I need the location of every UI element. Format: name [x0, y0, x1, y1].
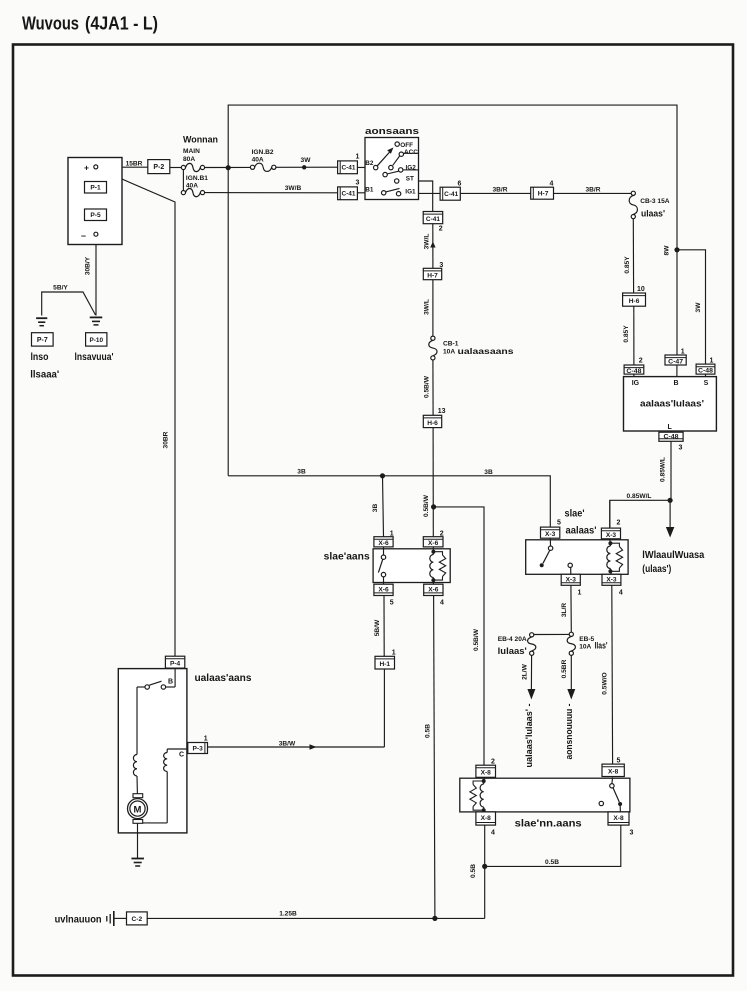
svg-text:IGN.B1: IGN.B1	[186, 175, 208, 182]
connector C-48 (S)	[696, 364, 715, 374]
connector P-7	[32, 333, 54, 346]
wire 3B row	[228, 476, 550, 527]
svg-text:aalaas': aalaas'	[566, 526, 597, 537]
svg-text:0.5BR: 0.5BR	[561, 659, 568, 678]
wire 3B to X-3 pin5	[549, 526, 551, 528]
cut starter relay switch	[599, 777, 622, 812]
svg-text:H-1: H-1	[379, 661, 390, 668]
connector H-6 pin10	[623, 293, 646, 306]
wire switch IG1 to C-41 pin6	[401, 192, 440, 194]
wire C-2 to right (1.25B)	[147, 917, 485, 919]
circuit breaker EB-5 10A	[567, 632, 575, 655]
svg-text:3W: 3W	[695, 302, 702, 313]
svg-text:X-6: X-6	[378, 586, 389, 593]
svg-text:0.85Y: 0.85Y	[624, 256, 631, 274]
svg-text:1.25B: 1.25B	[279, 910, 297, 917]
wire P-2 to MAIN fuse	[170, 167, 182, 169]
svg-text:0.85W/L: 0.85W/L	[660, 457, 667, 482]
svg-text:5B/Y: 5B/Y	[53, 284, 68, 291]
svg-text:0.5B/W: 0.5B/W	[424, 375, 431, 398]
wire chassis ground to engine ground (5B/Y)	[42, 292, 96, 316]
connector P-10	[86, 333, 107, 346]
connector C-47 (B)	[665, 355, 686, 365]
svg-text:1: 1	[356, 154, 360, 161]
svg-text:P-5: P-5	[90, 212, 101, 219]
svg-text:2: 2	[440, 530, 444, 537]
connector X-3 pin1	[561, 574, 580, 585]
svg-text:CB-1: CB-1	[443, 340, 459, 347]
svg-text:(ulaas'): (ulaas')	[642, 564, 671, 575]
svg-text:+: +	[84, 163, 89, 173]
wire C-48 pin3 to junction (0.85W/L)	[670, 441, 672, 500]
svg-text:2L/W: 2L/W	[522, 663, 529, 680]
connector X-6 pin2	[423, 537, 443, 548]
svg-text:ualaas'lulaas' -: ualaas'lulaas' -	[524, 704, 535, 768]
wire X-3 pin2 up	[609, 500, 611, 528]
svg-text:IGN.B2: IGN.B2	[252, 149, 274, 156]
svg-text:3B/R: 3B/R	[492, 186, 507, 193]
battery - terminal	[81, 231, 98, 241]
svg-text:2: 2	[617, 520, 621, 527]
wire C-41 pin2 to H-7 pin3 (3W/L)	[432, 224, 434, 269]
svg-text:3: 3	[630, 830, 634, 837]
svg-text:P-2: P-2	[153, 164, 164, 171]
svg-text:3: 3	[679, 445, 683, 452]
svg-text:C-47: C-47	[668, 359, 684, 365]
svg-text:6: 6	[458, 180, 462, 187]
wire C-47 pin1 into alternator B	[676, 365, 678, 377]
ground below starter motor	[131, 859, 144, 867]
heater relay switch	[540, 538, 573, 574]
svg-text:Wuvous: Wuvous	[22, 14, 79, 34]
svg-text:lnsavuua': lnsavuua'	[75, 352, 114, 363]
connector X-3 pin2	[601, 528, 620, 539]
wire X-6 pin5 to H-1 (5B/W)	[383, 596, 385, 657]
svg-text:1: 1	[390, 530, 394, 537]
svg-text:3B: 3B	[484, 469, 493, 476]
svg-text:X-3: X-3	[566, 576, 577, 583]
svg-text:slae': slae'	[565, 509, 585, 520]
svg-text:ulaas': ulaas'	[641, 209, 665, 219]
wire H-7 pin3 to CB-1 (3W/L)	[432, 280, 434, 336]
label IGN.B2 40A	[252, 149, 274, 163]
battery box	[68, 158, 122, 245]
svg-text:8W: 8W	[664, 245, 671, 256]
wire IGN.B1 to C-41 pin3 (3W/B)	[205, 192, 338, 194]
wire CB-1 to H-6 pin13 (0.5B/W)	[432, 358, 434, 415]
wire bus drop below junction	[227, 168, 229, 476]
svg-text:0.5B: 0.5B	[470, 864, 477, 878]
svg-text:3W/L: 3W/L	[423, 234, 430, 250]
svg-text:3: 3	[439, 262, 443, 269]
wire alternator L to C-48 pin3	[670, 431, 672, 432]
svg-text:4: 4	[440, 600, 444, 607]
connector X-6 pin4	[424, 584, 443, 595]
svg-text:aalaas'lulaas': aalaas'lulaas'	[640, 399, 704, 409]
starter relay coil and resistor	[430, 547, 446, 584]
svg-text:IG: IG	[632, 380, 640, 387]
alternator box ออลเตอร์เนเตอร์	[624, 377, 717, 431]
svg-text:X-8: X-8	[481, 815, 492, 822]
circuit breaker CB-1 10A	[429, 336, 437, 360]
svg-text:40A: 40A	[252, 157, 264, 164]
svg-text:B: B	[168, 678, 173, 685]
wire to charge warning lamp arrow	[669, 500, 671, 528]
junction dot 8W branch	[674, 247, 679, 252]
svg-text:MAIN: MAIN	[183, 148, 200, 155]
wire C-41 pin3 to switch B1	[357, 192, 381, 194]
svg-text:0.5W/O: 0.5W/O	[602, 672, 609, 694]
arrow to blower motor	[527, 689, 535, 700]
circuit breaker EB-4 20A	[528, 633, 536, 656]
svg-text:B: B	[674, 380, 679, 387]
circuit breaker CB-3 15A	[629, 191, 637, 219]
starter motor B terminal and switch	[137, 669, 175, 690]
wire X-3 pin1 to EB breakers (3L/R)	[570, 584, 572, 632]
junction dot 0.5B loop	[482, 864, 487, 869]
svg-text:P-4: P-4	[170, 661, 181, 668]
svg-text:2: 2	[439, 225, 443, 232]
svg-text:1: 1	[204, 736, 208, 743]
wire link MAIN to IGN.B1 fuse	[182, 170, 184, 191]
svg-text:4: 4	[550, 180, 554, 187]
starter motor box	[118, 669, 187, 833]
svg-text:3B: 3B	[297, 469, 306, 476]
connector C-48 (L)	[659, 432, 683, 441]
svg-text:2: 2	[491, 758, 495, 765]
svg-text:S: S	[704, 380, 709, 387]
battery + terminal	[84, 163, 98, 173]
connector P-3	[188, 743, 208, 754]
connector P-2	[148, 160, 170, 174]
svg-text:ACC: ACC	[404, 149, 418, 156]
svg-text:0.5B/W: 0.5B/W	[473, 628, 480, 651]
arrow mark on 3B/W wire	[310, 744, 317, 749]
wire X-6 pin4 down to 1.25B junction (0.5B)	[434, 596, 435, 919]
svg-text:X-6: X-6	[428, 540, 439, 547]
arrow to pressure switch	[567, 689, 575, 700]
switch contact OFF	[395, 142, 413, 149]
wire H-7 pin4 to CB-3 (3B/R)	[554, 192, 632, 194]
svg-text:X-8: X-8	[608, 769, 619, 776]
svg-text:llas': llas'	[595, 641, 608, 651]
connector C-41 pin1	[338, 161, 358, 174]
svg-text:1: 1	[710, 357, 714, 364]
svg-text:M: M	[134, 804, 142, 815]
svg-text:–: –	[81, 231, 86, 241]
svg-text:CB-3 15A: CB-3 15A	[640, 198, 670, 205]
svg-text:L: L	[668, 424, 673, 431]
svg-text:slae'nn.aans: slae'nn.aans	[515, 819, 582, 830]
wire X-3 pin4 to X-8 pin5 (0.5W/O)	[611, 585, 614, 764]
switch terminal B1 and arm	[365, 186, 399, 195]
svg-text:3: 3	[356, 180, 360, 187]
svg-text:4: 4	[491, 830, 495, 837]
connector C-41 pin6	[440, 187, 460, 200]
arrow mark on 3W/L wire	[430, 242, 435, 248]
connector H-7 pin3	[423, 268, 441, 279]
wire main vertical bus x=228 (top loop to 3B row)	[228, 105, 677, 355]
connector X-3 pin4	[602, 574, 621, 585]
svg-text:lulaas': lulaas'	[498, 646, 527, 656]
svg-text:5: 5	[617, 757, 621, 764]
switch terminal B2	[365, 160, 378, 170]
wire X-8 pin4 loop to X-8 pin3 (0.5B)	[484, 825, 486, 918]
wire H-6 pin13 down across 3B to X-6 pin2	[432, 428, 434, 537]
svg-text:X-3: X-3	[606, 532, 617, 539]
svg-text:P-3: P-3	[193, 745, 204, 752]
connector X-8 pin3	[608, 812, 629, 825]
svg-text:lWlaaulWuasa: lWlaaulWuasa	[642, 550, 704, 561]
svg-text:3B/R: 3B/R	[585, 186, 600, 193]
svg-text:2: 2	[639, 357, 643, 364]
wire C-41 pin1 to switch B2	[357, 166, 373, 168]
label 10A แอร์	[579, 641, 607, 651]
label CB-1 10A มอเตอร์สตาร์ท	[443, 340, 514, 356]
svg-text:llsaaa': llsaaa'	[30, 370, 59, 381]
svg-text:30B/Y: 30B/Y	[85, 256, 92, 275]
connector X-8 pin5	[602, 764, 624, 776]
wire H-1 down to 3B/W corner	[383, 669, 385, 747]
svg-text:H-6: H-6	[629, 298, 640, 305]
wire battery+ diagonal to 30BR drop	[98, 169, 176, 657]
svg-text:X-3: X-3	[545, 531, 556, 538]
svg-text:H-7: H-7	[538, 191, 549, 198]
svg-text:uvlnauuon: uvlnauuon	[55, 915, 102, 926]
wire CB-3 to H-6 pin10 (0.85Y)	[632, 219, 634, 293]
title ผังวงจร (4JA1 - L)	[22, 14, 158, 34]
svg-text:aonsaans: aonsaans	[365, 126, 419, 137]
svg-text:ualaasaans: ualaasaans	[458, 346, 514, 356]
connector X-6 pin1	[374, 537, 393, 548]
svg-text:IG2: IG2	[406, 165, 417, 172]
motor M symbol	[128, 794, 148, 824]
wire EB-4 to blower arrow (2L/W)	[530, 655, 532, 689]
wire EB-4/EB-5 link	[534, 633, 569, 635]
svg-text:(4JA1 - L): (4JA1 - L)	[85, 14, 158, 34]
switch contact ACC	[389, 149, 419, 170]
svg-text:10A: 10A	[443, 348, 455, 355]
svg-text:H-7: H-7	[427, 272, 438, 279]
svg-text:C-48: C-48	[626, 369, 642, 375]
wire coil to P-3	[167, 748, 188, 750]
wire motor to ground	[137, 823, 139, 858]
wire EB-5 to pressure switch arrow (0.5BR)	[570, 655, 572, 689]
svg-text:80A: 80A	[183, 156, 195, 163]
svg-text:lnso: lnso	[31, 352, 49, 363]
svg-text:C-48: C-48	[698, 369, 714, 375]
svg-text:0.5B: 0.5B	[424, 724, 431, 738]
svg-text:X-6: X-6	[428, 586, 439, 593]
switch contact IG2	[383, 165, 419, 177]
svg-text:EB-4 20A: EB-4 20A	[498, 636, 527, 643]
svg-text:5B/W: 5B/W	[374, 619, 381, 636]
wire battery- to engine ground (30B/Y)	[95, 236, 97, 315]
ground chassis	[36, 318, 47, 326]
svg-text:C-41: C-41	[342, 165, 357, 172]
switch arm B2 with arrow	[377, 148, 393, 166]
svg-text:30BR: 30BR	[162, 431, 169, 448]
connector X-3 pin5	[541, 527, 560, 538]
wire MAIN fuse to IGN.B2 fuse (top feed)	[205, 166, 251, 168]
svg-text:3W: 3W	[301, 157, 312, 164]
wire C-48 pin2 into alternator IG	[633, 374, 635, 377]
svg-text:X-3: X-3	[606, 576, 617, 583]
svg-text:B1: B1	[365, 186, 374, 193]
svg-text:C-48: C-48	[664, 434, 680, 440]
wire branch 0.5B/W to X-8 pin2	[434, 507, 484, 765]
svg-text:C-41: C-41	[342, 191, 357, 198]
svg-text:3W/L: 3W/L	[423, 299, 430, 315]
label IGN.B1 40A	[186, 175, 208, 190]
svg-text:ualaas'aans: ualaas'aans	[195, 673, 252, 684]
connector P-4	[165, 656, 184, 668]
starter relay box	[373, 549, 450, 583]
svg-text:X-8: X-8	[481, 770, 492, 777]
wire C-48 S pin into alternator	[705, 374, 707, 377]
cut starter relay box	[460, 778, 630, 812]
connector X-8 pin4	[476, 812, 496, 825]
svg-text:40A: 40A	[186, 182, 198, 189]
svg-text:EB-5: EB-5	[579, 636, 594, 643]
svg-text:5: 5	[390, 600, 394, 607]
fuse IGN.B2 40A	[250, 163, 276, 171]
svg-text:3W/B: 3W/B	[285, 185, 302, 192]
junction dot on 3W wire	[302, 165, 306, 169]
svg-text:0.5B: 0.5B	[545, 859, 559, 866]
switch contact IG1	[396, 188, 416, 196]
junction dot 3B to starter relay	[380, 473, 385, 478]
svg-text:5: 5	[557, 520, 561, 527]
svg-text:H-6: H-6	[427, 420, 438, 427]
connector X-8 pin2	[476, 765, 496, 777]
heater relay box	[526, 540, 628, 575]
connector H-7 pin4	[531, 187, 554, 199]
svg-text:1: 1	[578, 589, 582, 596]
svg-text:B2: B2	[365, 160, 374, 167]
svg-text:1: 1	[392, 650, 396, 657]
wire 8W branch to S terminal (3W)	[677, 250, 706, 364]
wire 3B drop to X-6 pin1	[383, 476, 384, 537]
connector P-1	[85, 182, 107, 194]
starter switch box	[365, 138, 419, 200]
svg-text:3B: 3B	[372, 504, 379, 513]
fuse MAIN 80A	[181, 163, 204, 171]
svg-text:0.5B/W: 0.5B/W	[423, 494, 430, 517]
svg-text:C-2: C-2	[132, 916, 143, 923]
wire junction to X-3 pin2 (0.85W/L)	[610, 500, 670, 528]
charge warning lamp arrow	[666, 527, 675, 538]
svg-text:Wonnan: Wonnan	[183, 135, 218, 145]
starter motor pull-in coil	[133, 687, 137, 798]
fuse IGN.B1 40A	[181, 188, 204, 196]
svg-text:slae'aans: slae'aans	[324, 552, 370, 563]
svg-text:15BR: 15BR	[126, 160, 143, 167]
connector H-1 pin1	[375, 656, 395, 669]
svg-text:3L/R: 3L/R	[561, 603, 568, 618]
label MAIN 80A	[183, 148, 200, 163]
connector P-5	[85, 209, 107, 221]
wire H-6 pin10 to C-48 pin2 (0.85Y)	[633, 306, 635, 365]
junction dot 0.5B/W branch	[431, 504, 436, 509]
connector C-41 pin2	[423, 212, 443, 224]
connector C-41 pin3	[338, 187, 358, 200]
svg-text:IG1: IG1	[405, 188, 416, 195]
svg-text:P-10: P-10	[90, 337, 104, 344]
wire C-41 pin6 to H-7 pin4 (3B/R)	[460, 192, 530, 194]
wire IGN.B2 to C-41 pin1 (3W)	[276, 166, 338, 168]
starter relay switch	[378, 547, 385, 584]
svg-text:C: C	[179, 752, 184, 759]
svg-text:P-7: P-7	[37, 337, 48, 344]
wire battery+ to P-2 (15BR)	[98, 166, 148, 168]
svg-text:0.85Y: 0.85Y	[623, 325, 630, 343]
svg-text:X-8: X-8	[613, 815, 624, 822]
svg-text:3B/W: 3B/W	[279, 741, 296, 748]
starter motor hold-in coil	[140, 749, 167, 823]
wire P-3 to corner (3B/W)	[208, 746, 385, 748]
junction dot 1.25B / 0.5B	[432, 916, 437, 921]
svg-text:ST: ST	[406, 176, 414, 183]
heater relay coil and resistor	[607, 539, 623, 575]
ground engine (battery-)	[90, 317, 103, 325]
svg-text:P-1: P-1	[90, 185, 101, 192]
connector X-6 pin5	[374, 584, 393, 595]
connector H-6 pin13	[423, 415, 441, 427]
cut starter relay coil and resistor	[470, 777, 486, 812]
svg-text:10A: 10A	[579, 643, 591, 650]
svg-text:C-41: C-41	[426, 216, 441, 223]
svg-text:0.85W/L: 0.85W/L	[627, 493, 652, 500]
svg-text:aonsnouuuu -: aonsnouuuu -	[564, 704, 575, 760]
connector C-48 (IG)	[624, 365, 644, 375]
fender ground mark	[107, 911, 127, 926]
svg-text:X-6: X-6	[378, 540, 389, 547]
junction dot main bus after MAIN fuse	[226, 165, 231, 170]
svg-text:4: 4	[619, 589, 623, 596]
connector C-2	[127, 912, 148, 925]
svg-text:10: 10	[637, 286, 645, 293]
switch contact ST	[395, 176, 415, 184]
junction dot 0.85W/L branch	[668, 498, 673, 503]
svg-text:13: 13	[438, 408, 446, 415]
svg-text:C-41: C-41	[444, 191, 459, 198]
wire switch ST to C-41 pin2	[399, 181, 433, 212]
